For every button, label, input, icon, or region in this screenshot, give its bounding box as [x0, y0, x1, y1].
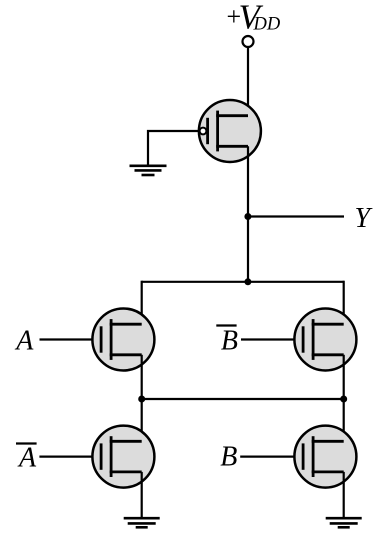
svg-text:A: A: [17, 443, 37, 474]
wire middle rail: [142, 398, 344, 400]
wire A to Q2 gate: [40, 338, 102, 340]
svg-text:A: A: [14, 326, 34, 357]
wire middle rail to Q4 drain: [141, 399, 143, 441]
wire VDD terminal to Q1 drain: [247, 48, 249, 116]
transistor Q1 (PMOS pull-up): [199, 100, 261, 162]
transistor Q2 (NMOS, input A): [92, 309, 154, 371]
node A-bar label: [16, 443, 37, 474]
svg-text:B: B: [220, 442, 237, 473]
junction dot middle rail left: [138, 396, 145, 403]
VDD terminal circle: [243, 36, 254, 47]
wire B-bar to Q3 gate: [241, 338, 303, 340]
transistor Q3 (NMOS, input B-bar): [294, 309, 356, 371]
wire to output Y: [248, 215, 344, 217]
wire Q3 source to middle rail: [343, 355, 345, 400]
wire top rail: [142, 281, 344, 283]
ground (Q4 source): [124, 518, 160, 527]
svg-text:B: B: [221, 326, 238, 357]
junction dot on top rail: [244, 278, 251, 285]
wire Q4 source to ground: [141, 472, 143, 518]
transistor Q5 (NMOS, input B): [294, 426, 356, 488]
wire A-bar to Q4 gate: [39, 456, 101, 458]
ground (Q1 gate): [130, 166, 167, 175]
wire Q5 source to ground: [343, 472, 345, 518]
wire rail to Q2 drain: [141, 281, 143, 325]
junction node Y: [244, 213, 251, 220]
wire rail to Q3 drain: [343, 281, 345, 325]
junction dot middle rail right: [340, 396, 347, 403]
wire middle rail to Q5 drain: [343, 399, 345, 441]
wire Q1 source down to node Y and PDN rail: [247, 146, 249, 281]
wire Q1 gate to ground: [148, 131, 200, 166]
wire B to Q5 gate: [240, 456, 303, 458]
transistor Q4 (NMOS, input A-bar): [92, 426, 154, 488]
ground (Q5 source): [326, 518, 362, 527]
wire Q2 source to middle rail: [141, 355, 143, 400]
svg-text:DD: DD: [253, 14, 281, 34]
node B-bar label: [216, 326, 238, 357]
node +VDD label: [227, 0, 281, 37]
